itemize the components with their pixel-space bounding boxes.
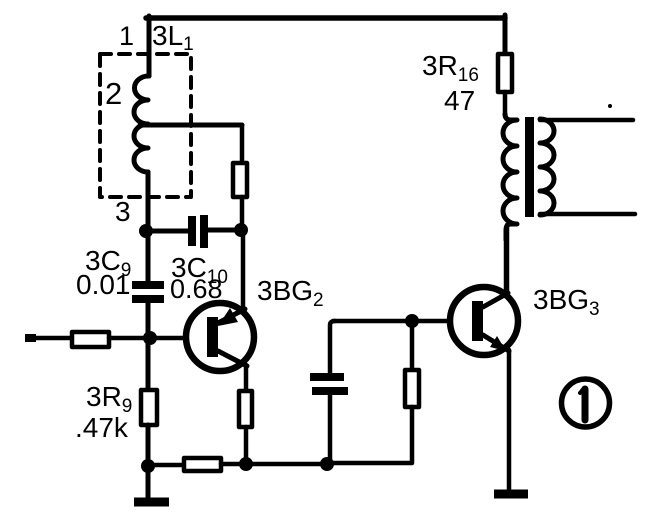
- label 3R9: [86, 381, 132, 417]
- svg-text:1: 1: [119, 21, 134, 51]
- wire coil bottom to node A: [146, 172, 151, 231]
- transistor 3BG2: [186, 303, 254, 371]
- svg-text:0.68: 0.68: [170, 274, 223, 304]
- wire node E to node F: [246, 462, 327, 467]
- capacitor 3C10: [192, 215, 204, 248]
- value 47: [444, 85, 475, 116]
- resistor feedback (vertical, unlabeled): [233, 163, 247, 197]
- capacitor 3C9: [132, 285, 164, 299]
- ground left: [134, 498, 169, 507]
- node A junction dot: [139, 224, 153, 238]
- ink speck: [608, 104, 612, 108]
- wire resistor to node E: [244, 427, 249, 464]
- wire input to input resistor: [30, 336, 72, 341]
- wire tap corner down to resistor top: [240, 125, 245, 163]
- pin label 1: [119, 21, 134, 51]
- node B junction dot: [234, 223, 248, 237]
- node D junction dot: [141, 459, 155, 473]
- wire 3C10 right plate to node B: [208, 228, 242, 233]
- wire node G down to bias resistor: [410, 321, 415, 370]
- wire node C down to 3R9: [146, 338, 151, 390]
- resistor input (horizontal, unlabeled): [72, 332, 109, 347]
- wire 3BG2 emitter up to node B: [241, 232, 246, 310]
- wire 3BG3 emitter down to ground: [507, 350, 512, 489]
- wire 3R9 to node D: [146, 425, 151, 466]
- wire secondary top lead: [540, 118, 633, 123]
- transistor 3BG3: [450, 287, 518, 355]
- inductor 3L1: [134, 76, 149, 172]
- resistor 3R9: [141, 390, 157, 425]
- svg-text:3: 3: [115, 196, 131, 227]
- wire input stub: [25, 334, 36, 342]
- svg-text:2: 2: [105, 76, 122, 111]
- dashed box around 3L1: [100, 54, 191, 197]
- svg-text:47: 47: [444, 85, 475, 116]
- wire node F to resistor bottom corner: [327, 461, 412, 466]
- label 3R16: [422, 50, 479, 86]
- svg-text:3R16: 3R16: [422, 50, 479, 86]
- node G junction dot: [405, 314, 419, 328]
- wire capacitor branch up: [328, 395, 333, 464]
- wire 3R16 to transformer primary: [503, 92, 508, 114]
- pin label 3: [115, 196, 131, 227]
- svg-text:0.01: 0.01: [76, 269, 131, 300]
- label 3BG3: [533, 284, 600, 320]
- wire input resistor to node C and base of 3BG2: [109, 336, 186, 341]
- wire left vertical from top rail to coil: [147, 16, 152, 76]
- transformer core: [525, 117, 534, 217]
- wire 3BG2 collector down to emitter resistor: [244, 365, 249, 391]
- label 3C9: [85, 245, 131, 281]
- label 3C10: [171, 252, 228, 288]
- label 3BG2: [257, 275, 324, 311]
- capacitor bypass (unlabeled): [310, 377, 348, 391]
- svg-text:.47k: .47k: [75, 412, 129, 443]
- value 0.01: [76, 269, 131, 300]
- value .47k: [75, 412, 129, 443]
- wire capacitor top to base rail corner: [330, 321, 335, 373]
- ground right: [494, 490, 528, 499]
- value 0.68: [170, 274, 223, 304]
- wire top rail corner down to 3R16: [503, 15, 508, 54]
- wire node A to capacitor 3C10 left plate: [146, 229, 188, 234]
- svg-text:3BG2: 3BG2: [257, 275, 324, 311]
- pin label 2: [105, 76, 122, 111]
- wire bias resistor to bottom rail: [410, 407, 415, 462]
- node F junction dot: [320, 457, 334, 471]
- transformer primary winding: [503, 114, 517, 240]
- wire 3BG3 collector up to transformer: [505, 225, 510, 292]
- wire secondary bottom lead: [540, 212, 635, 217]
- wire node D to bottom resistor: [148, 463, 184, 468]
- wire ground stem left: [146, 466, 151, 498]
- wire node A down to capacitor 3C9: [146, 231, 151, 282]
- circled figure number 1: [562, 379, 610, 427]
- svg-text:3L1: 3L1: [152, 20, 194, 55]
- node E junction dot: [239, 457, 253, 471]
- wire bottom resistor to node E: [221, 462, 246, 467]
- wire primary bottom to collector: [504, 238, 509, 292]
- resistor 3R16: [498, 54, 512, 92]
- resistor bias (vertical, unlabeled): [405, 370, 419, 407]
- svg-text:3BG3: 3BG3: [533, 284, 600, 320]
- wire 3C9 to node C: [146, 303, 151, 338]
- wire tap from coil to feedback resistor: [140, 123, 242, 128]
- transformer secondary winding: [540, 119, 554, 215]
- label 3L1: [152, 20, 194, 55]
- resistor collector load (vertical, unlabeled): [239, 391, 252, 427]
- wire base rail to 3BG3: [333, 319, 449, 324]
- node C junction dot: [143, 331, 157, 345]
- wire top rail: [146, 15, 505, 21]
- resistor bottom (horizontal, unlabeled): [184, 458, 221, 471]
- wire resistor bottom to node B: [240, 197, 245, 230]
